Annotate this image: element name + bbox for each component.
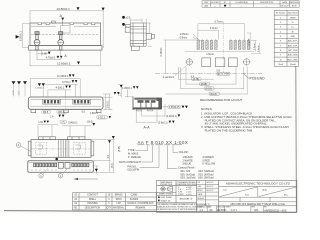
pcb locating hole right xyxy=(243,58,251,66)
revision table dark mark xyxy=(224,5,226,7)
side view bottom tab xyxy=(131,46,139,50)
svg-text:(4.75): (4.75) xyxy=(193,78,199,81)
svg-text:ANGULAR ±3°: ANGULAR ±3° xyxy=(180,198,193,201)
mounting leg right xyxy=(57,32,64,51)
svg-text:RoHS COMPLIANT: RoHS COMPLIANT xyxy=(119,161,141,164)
parts table row 03 contact xyxy=(74,194,138,197)
pcb vertical centreline xyxy=(222,21,224,73)
pcb feature control frame xyxy=(217,72,230,75)
pcb ref dim (9.15) xyxy=(181,67,244,90)
rear view main outline xyxy=(31,140,91,158)
svg-text:UL94V-0, COLOR:BLACK: UL94V-0, COLOR:BLACK xyxy=(127,202,154,205)
parts table header row xyxy=(74,207,146,210)
svg-text:Shell: Shell xyxy=(278,64,283,66)
rear view dashed centreline xyxy=(32,148,91,150)
svg-text:2.15mm: 2.15mm xyxy=(160,48,163,57)
rear dim lines xyxy=(38,125,91,137)
small row above title xyxy=(219,197,297,202)
rear view right dimension lines xyxy=(92,137,115,173)
callout dot 1 with label xyxy=(122,16,125,19)
svg-text:00S: 3u/Gold: 00S: 3u/Gold xyxy=(180,176,195,180)
pcb end dash-dot line xyxy=(155,72,262,74)
svg-text:1:1: 1:1 xyxy=(199,209,203,212)
pcb locating hole left xyxy=(185,58,193,66)
front view solder tab left xyxy=(31,109,36,112)
svg-text:CONTACT: CONTACT xyxy=(87,194,98,197)
svg-text:010:10PIN: 010:10PIN xyxy=(127,168,139,171)
svg-text:SUS304: SUS304 xyxy=(130,199,139,201)
projection symbol xyxy=(160,186,174,191)
section inner upper contact bar xyxy=(138,100,156,103)
svg-text:1.60: 1.60 xyxy=(38,121,43,124)
side view main body xyxy=(130,23,146,46)
svg-text:3.0±0.1: 3.0±0.1 xyxy=(107,100,110,109)
pcb signal pads left group (hatched) xyxy=(197,40,217,49)
front view solder tab right xyxy=(96,109,101,112)
svg-text:BRASS: BRASS xyxy=(115,194,123,197)
svg-text:1.45±0.1: 1.45±0.1 xyxy=(35,88,44,90)
svg-text:(7): (7) xyxy=(62,121,65,124)
svg-text:DATE: DATE xyxy=(198,193,203,196)
svg-text:(5.3): (5.3) xyxy=(112,163,114,168)
section bottom bar (dark) xyxy=(133,107,160,109)
svg-text:R0.5: R0.5 xyxy=(43,111,49,114)
svg-text:13.80±0.1: 13.80±0.1 xyxy=(57,61,71,65)
proprietary note xyxy=(157,203,210,211)
svg-text:2-⌀0.9mm: 2-⌀0.9mm xyxy=(163,76,174,79)
top view interior lines xyxy=(31,26,100,51)
svg-text:0.8mm: 0.8mm xyxy=(180,36,188,39)
svg-text:ECN NO.: ECN NO. xyxy=(211,2,219,4)
svg-text:11.35±0.1: 11.35±0.1 xyxy=(57,74,69,78)
svg-text:0.8: 0.8 xyxy=(216,69,220,72)
svg-text:MIC_DNN: MIC_DNN xyxy=(288,50,298,52)
top view body outline xyxy=(29,23,102,50)
svg-text:DATE: DATE xyxy=(282,1,288,4)
svg-text:AUD_STP-: AUD_STP- xyxy=(288,44,298,47)
svg-text:1.8±0.1: 1.8±0.1 xyxy=(90,112,99,115)
svg-text:0.5mm: 0.5mm xyxy=(254,43,256,50)
svg-text:Signal Name: Signal Name xyxy=(288,13,298,15)
svg-text:X.XXX: X.XXX xyxy=(178,194,184,196)
front view body xyxy=(28,97,103,109)
side view mating face protrusion xyxy=(125,25,130,33)
parts table row 02 shell xyxy=(74,199,138,201)
svg-text:PROJECTION: PROJECTION xyxy=(160,184,173,186)
rear view weld dot callout xyxy=(55,158,58,161)
svg-text:0.3mm: 0.3mm xyxy=(258,45,260,52)
side view top small dimension xyxy=(130,19,146,23)
svg-text:Shield: Shield xyxy=(290,64,296,66)
svg-text:REMARK: REMARK xyxy=(136,207,146,210)
pcb horizontal guide line xyxy=(185,51,254,53)
side view right solder tab xyxy=(146,34,154,40)
section contact legs (thin verticals) xyxy=(141,103,151,108)
svg-text:(2.26±0.1): (2.26±0.1) xyxy=(166,115,177,118)
svg-text:4.75±0.1: 4.75±0.1 xyxy=(46,57,56,60)
svg-text:MODEL: MODEL xyxy=(198,198,204,200)
front dim (R0.3) xyxy=(57,110,68,113)
pin table texts xyxy=(276,13,299,67)
svg-text:OTHERWISE SPECIFIED: OTHERWISE SPECIFIED xyxy=(176,184,198,186)
svg-text:08.11.27: 08.11.27 xyxy=(207,190,214,192)
svg-text:(R0.3): (R0.3) xyxy=(58,111,65,114)
middle signature column grid xyxy=(197,180,219,205)
bottom row labels and values xyxy=(197,206,268,209)
part number leader lines xyxy=(136,145,178,168)
section shell top bar xyxy=(134,98,160,100)
rear view right small dim with triangle xyxy=(93,166,99,174)
svg-text:BE REPRODUCED WITHOUT WRITTEN: BE REPRODUCED WITHOUT WRITTEN PERMISSION… xyxy=(157,209,198,211)
svg-text:Sam: Sam xyxy=(245,194,249,196)
svg-text:6.7mm: 6.7mm xyxy=(215,20,223,24)
svg-text:1.60: 1.60 xyxy=(42,52,47,55)
rear view bottom arrow line xyxy=(74,178,98,180)
svg-text:3 BLUE: 3 BLUE xyxy=(182,162,191,166)
svg-text:A01: A01 xyxy=(254,209,259,212)
svg-text:AAFB010151—00S: AAFB010151—00S xyxy=(264,208,287,212)
svg-text:UNIT: IN MM: UNIT: IN MM xyxy=(161,197,172,199)
revision table header text xyxy=(204,1,299,4)
rear dim (7) boxed xyxy=(60,120,67,123)
arrow at right end of 13.80 dim xyxy=(102,8,105,11)
frame bottom border line xyxy=(4,211,296,213)
front far right vertical dim xyxy=(118,84,123,97)
pcb right vertical dims xyxy=(247,33,261,53)
third angle projection cell xyxy=(160,181,173,186)
left vertical dimension 6.30 xyxy=(23,23,30,47)
section body left wall xyxy=(132,97,134,111)
unit checkboxes xyxy=(158,196,160,198)
svg-text:SCALE: 2/1: SCALE: 2/1 xyxy=(161,199,171,202)
section feet marks xyxy=(137,109,153,111)
svg-text:METRIC: METRIC xyxy=(217,209,227,212)
front dim 2-C0.3 boxed xyxy=(97,116,108,119)
rear view centre slots xyxy=(58,163,70,169)
callout dot 2 with label xyxy=(122,23,125,26)
svg-text:5.86±0.1: 5.86±0.1 xyxy=(68,121,78,124)
pcb pad centre ticks xyxy=(198,39,248,41)
pcb ref dim (8.05) xyxy=(186,67,236,86)
svg-text:1.6mm: 1.6mm xyxy=(206,53,214,56)
svg-text:Andy: Andy xyxy=(262,188,266,191)
svg-text:1.5mm: 1.5mm xyxy=(249,38,251,45)
parts table row 01 housing xyxy=(74,202,154,205)
svg-text:1 of 1: 1 of 1 xyxy=(231,209,238,212)
svg-text:(8.05): (8.05) xyxy=(201,83,207,86)
svg-text:08.11.27: 08.11.27 xyxy=(207,186,214,188)
svg-text:APVD: APVD xyxy=(198,189,204,192)
svg-text:(10.3): (10.3) xyxy=(87,120,93,123)
revision table value row xyxy=(204,4,296,7)
front view contact slot box A xyxy=(43,99,61,104)
svg-text:13.80±0.1: 13.80±0.1 xyxy=(57,7,71,11)
svg-text:1.05mm: 1.05mm xyxy=(180,33,189,36)
front view contact slot box B xyxy=(73,99,91,104)
rear view side wings xyxy=(28,141,94,156)
svg-text:2-C0.3: 2-C0.3 xyxy=(98,116,106,119)
svg-text:08.11.27: 08.11.27 xyxy=(207,182,214,184)
front dim 1.45 with triangles xyxy=(38,83,41,86)
part number left legend xyxy=(119,149,141,171)
front view centre bottom tab xyxy=(63,109,68,112)
bottom row cells xyxy=(207,206,263,213)
svg-text:(2.8±0.1): (2.8±0.1) xyxy=(158,121,168,124)
callout circle 2 with leader xyxy=(16,143,21,148)
svg-text:F: FEMALE: F: FEMALE xyxy=(128,156,141,159)
svg-text:Carl: Carl xyxy=(223,188,227,191)
svg-text:AUD_CNN-: AUD_CNN- xyxy=(288,54,299,57)
pcb shell tab square pads xyxy=(202,58,237,67)
svg-text:AA F 8 010 XX 1-00X: AA F 8 010 XX 1-00X xyxy=(138,140,189,145)
svg-text:AUD_STP+: AUD_STP+ xyxy=(288,40,299,43)
svg-text:Contact Finish :: Contact Finish : xyxy=(178,166,196,170)
signature cells with diagonals xyxy=(219,186,297,197)
svg-text:(8.45): (8.45) xyxy=(119,146,121,152)
tolerance values xyxy=(178,187,191,196)
bottom small dimension 1.60 xyxy=(37,50,50,55)
svg-text:SHELL: SHELL xyxy=(89,199,97,201)
svg-text:(9.15): (9.15) xyxy=(205,88,211,91)
svg-text:DESCRIPTION: DESCRIPTION xyxy=(260,2,274,4)
part number underlines xyxy=(138,144,183,146)
svg-text:6.30±0.1: 6.30±0.1 xyxy=(20,31,23,41)
svg-text:(11.3): (11.3) xyxy=(210,93,216,96)
svg-text:AUD_CNN+: AUD_CNN+ xyxy=(287,58,299,61)
svg-text:LOCATION(S): LOCATION(S) xyxy=(236,1,248,4)
svg-text:C2680: C2680 xyxy=(131,195,138,197)
svg-text:08.11.27: 08.11.27 xyxy=(281,6,290,8)
front view contact pads group A xyxy=(44,100,60,103)
front right vertical dims xyxy=(103,94,112,110)
svg-text:GND: GND xyxy=(291,36,296,38)
PCB END label with leader xyxy=(243,73,249,78)
section dim (2.8) xyxy=(136,110,157,123)
svg-text:ECN: ECN xyxy=(292,5,297,7)
signature names xyxy=(223,188,289,196)
front dim R0.5 boxed xyxy=(42,110,51,113)
svg-text:DRAFT SYMBOL: DRAFT SYMBOL xyxy=(159,193,174,196)
svg-text:PLATED ON THE SOLDERING TAB.: PLATED ON THE SOLDERING TAB. xyxy=(205,128,253,132)
svg-text:RECOMMENDED PCB LAYOUT: RECOMMENDED PCB LAYOUT xyxy=(200,98,242,102)
svg-text:NOTES:: NOTES: xyxy=(201,107,213,111)
svg-text:QTY: QTY xyxy=(107,208,112,210)
rear view lower tick row xyxy=(32,169,90,171)
rear view bottom housing xyxy=(28,161,94,173)
pcb ref dim (4.75) xyxy=(178,67,213,81)
svg-text:COLOR :: COLOR : xyxy=(179,150,190,154)
front view contact pads group B xyxy=(74,100,90,103)
mounting leg left xyxy=(34,32,41,51)
svg-text:SPCC: SPCC xyxy=(116,199,123,201)
rear view centre column xyxy=(59,140,69,158)
svg-text:NO.: NO. xyxy=(74,208,78,210)
svg-text:D-: D- xyxy=(292,22,294,24)
pcb ref dim (11.3) xyxy=(166,67,248,96)
svg-text:± 0.10: ± 0.10 xyxy=(186,194,191,196)
svg-text:VBUS: VBUS xyxy=(290,17,296,19)
svg-text:DESCRIPTION: DESCRIPTION xyxy=(85,208,101,210)
svg-text:4.5±0.1: 4.5±0.1 xyxy=(56,85,65,89)
svg-text:1.05±0.1: 1.05±0.1 xyxy=(122,87,132,90)
svg-text:M: M xyxy=(227,74,229,76)
svg-text:MATERIAL: MATERIAL xyxy=(113,207,125,210)
part number right legend xyxy=(178,150,216,179)
callout circle 1 (right) with leader xyxy=(58,174,62,178)
front view centreline xyxy=(65,96,67,113)
rear view top bumps xyxy=(39,137,86,140)
rear view inner contact marks xyxy=(38,145,81,149)
rear view contact slots left group xyxy=(34,163,57,167)
svg-text:MINI USB 10 B FEMALE SMT TYPE(: MINI USB 10 B FEMALE SMT TYPE(M' SHELL) … xyxy=(231,203,286,206)
svg-text:HOUSING: HOUSING xyxy=(87,203,98,205)
section dim (2.26) xyxy=(142,104,165,116)
section boxed dim 0.65 xyxy=(162,105,181,108)
svg-text:PCB END: PCB END xyxy=(250,77,266,81)
svg-text:P/N :: P/N : xyxy=(264,207,268,209)
svg-text:LCP: LCP xyxy=(117,203,122,205)
top view latch tab above edge xyxy=(52,21,56,23)
svg-text:6 YELLOW: 6 YELLOW xyxy=(202,162,215,166)
rear view contact slots right group xyxy=(72,163,89,167)
svg-text:030: 3N/Gold: 030: 3N/Gold xyxy=(198,176,214,180)
tolerance header cell xyxy=(176,181,198,186)
pcb signal pads right group (hatched) xyxy=(230,40,250,49)
top view overall dimension 13.80 (top) xyxy=(30,11,103,48)
front left end dim triangles xyxy=(12,81,16,84)
rear view inner dashed pockets xyxy=(36,143,86,155)
top view shell seam notches on top edge xyxy=(38,23,95,25)
section right L piece (dark) xyxy=(157,98,163,110)
svg-text:4.7±0.1: 4.7±0.1 xyxy=(62,80,71,84)
svg-text:REVISION: REVISION xyxy=(290,2,300,4)
svg-text:Pin Number: Pin Number xyxy=(276,13,286,15)
svg-text:ADAM ELECTRONIC TECHNOLOGY CO: ADAM ELECTRONIC TECHNOLOGY CO LTD xyxy=(226,182,291,186)
side view right dimension ticks xyxy=(147,23,152,46)
middle column texts xyxy=(198,182,214,200)
svg-text:2.6mm: 2.6mm xyxy=(210,26,218,30)
svg-text:A–A: A–A xyxy=(144,125,151,129)
callout circle 1 (left) with leader xyxy=(39,174,43,178)
svg-text:0.65±0.05: 0.65±0.05 xyxy=(169,106,180,109)
frame right border line xyxy=(295,66,298,213)
